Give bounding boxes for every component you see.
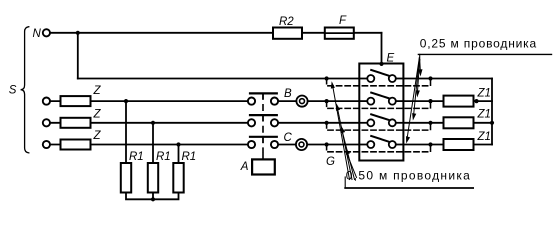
- wire: N drop to branch: [77, 33, 79, 79]
- wire: drop to R1 no.3: [178, 145, 180, 164]
- resistor Z (phase 2): [61, 118, 91, 128]
- E switch row 2: [359, 114, 403, 126]
- wire: row 3 right: [403, 144, 443, 146]
- svg-text:Z1: Z1: [477, 109, 491, 121]
- junction: E feed: [379, 62, 383, 66]
- wire: phase 1: [50, 100, 252, 102]
- svg-text:R1: R1: [156, 151, 171, 163]
- wire: E feed drop: [381, 33, 383, 64]
- svg-text:R1: R1: [182, 151, 197, 163]
- svg-text:E: E: [387, 53, 395, 65]
- svg-text:G: G: [326, 156, 335, 168]
- resistor Z1 (row 3): [444, 139, 474, 150]
- svg-text:0,50 м проводника: 0,50 м проводника: [346, 169, 470, 183]
- junction: Z1 row1 out: [474, 99, 478, 103]
- junction: phase3/R1: [176, 142, 180, 146]
- resistor R1 no.3: [173, 163, 183, 193]
- switch pole 3: [248, 137, 278, 148]
- wire: drop to R1 no.1: [125, 101, 127, 163]
- resistor Z (phase 1): [61, 96, 91, 106]
- junction: bus row2: [490, 121, 494, 125]
- svg-text:N: N: [33, 28, 42, 40]
- svg-text:Z: Z: [93, 130, 102, 142]
- terminal phase 1: [43, 98, 50, 105]
- resistor R1 no.1: [121, 163, 131, 193]
- resistor R1 no.2: [148, 163, 158, 193]
- dashed bypass row 2: [327, 123, 431, 130]
- svg-text:Z: Z: [93, 85, 102, 97]
- switch linkage (dashed): [262, 105, 264, 152]
- terminal C: [296, 139, 307, 150]
- E switch row N: [359, 70, 403, 82]
- resistor Z (phase 3): [61, 140, 91, 150]
- junction: N top: [76, 31, 80, 35]
- block E box: [359, 64, 403, 161]
- junction: phase1/R1: [124, 99, 128, 103]
- wire: phase 2: [50, 122, 252, 124]
- switch pole 1 (3-pole knife switch): [248, 93, 278, 104]
- terminal phase 2: [43, 119, 50, 126]
- wire: row N to right bus: [403, 78, 492, 80]
- dashed bypass row 1: [327, 101, 431, 108]
- svg-text:R2: R2: [279, 16, 294, 28]
- actuator A: [252, 159, 275, 174]
- arrows 0,25: [407, 58, 420, 140]
- brace for source S: [21, 27, 29, 153]
- resistor Z1 (row 2): [444, 117, 474, 128]
- svg-text:Z: Z: [93, 109, 102, 121]
- arrows 0,50: [333, 86, 357, 180]
- wire: drop to R1 no.2: [152, 123, 154, 163]
- right bus: [491, 79, 493, 145]
- switch pole 2: [248, 115, 278, 126]
- svg-text:B: B: [284, 88, 292, 100]
- wire: row 1 right: [403, 100, 443, 102]
- resistor Z1 (row 1): [444, 96, 474, 107]
- fuse F: [325, 28, 354, 39]
- svg-text:S: S: [9, 85, 17, 97]
- svg-text:0,25 м проводника: 0,25 м проводника: [420, 36, 537, 50]
- junction dots: right bypass steps: [428, 76, 432, 80]
- E switch row 3: [359, 136, 403, 148]
- junction: phase2/R1: [151, 121, 155, 125]
- wire: N branch line to block E: [78, 78, 360, 80]
- svg-text:R1: R1: [129, 151, 144, 163]
- terminal B: [296, 96, 307, 107]
- junction dots: left bypass steps: [325, 76, 329, 80]
- svg-text:C: C: [284, 132, 293, 144]
- wire: R1 bottom bus: [126, 193, 179, 200]
- svg-text:A: A: [240, 161, 249, 173]
- terminal N: [43, 29, 50, 36]
- junction: R1 bus: [151, 197, 155, 201]
- svg-text:Z1: Z1: [477, 88, 491, 100]
- resistor R2: [273, 28, 302, 39]
- wire: N top line: [50, 32, 382, 34]
- dashed bypass row 3: [327, 145, 431, 152]
- svg-text:F: F: [339, 15, 347, 27]
- wire: row 2 right: [403, 122, 443, 124]
- terminal phase 3: [43, 141, 50, 148]
- wire: phase 3: [50, 144, 252, 146]
- dashed bypass row N: [327, 79, 431, 86]
- svg-text:Z1: Z1: [477, 131, 491, 143]
- E switch row 1: [359, 93, 403, 105]
